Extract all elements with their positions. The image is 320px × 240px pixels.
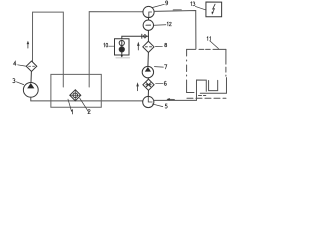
flow arrow up beside cooler 6	[136, 82, 139, 91]
label 3	[13, 79, 15, 83]
channel U segment	[209, 80, 218, 90]
label 1	[71, 110, 74, 114]
wire pump9 to gauge12	[147, 18, 149, 20]
pipe stub into tank (second riser)	[89, 12, 143, 87]
label 9	[166, 1, 168, 5]
wire pump7 to cooler6	[147, 78, 150, 79]
scan streak under valve box 10	[116, 57, 129, 59]
mold 11 right edge	[225, 49, 227, 76]
label 13	[191, 2, 195, 6]
filter 4 (diamond with dashed line)	[26, 61, 37, 71]
leader 5	[152, 104, 163, 107]
wire top run from pump9 to corner and down to mold 11	[154, 10, 196, 49]
pump 3 (circle with solid triangle)	[23, 82, 38, 97]
label 7	[164, 65, 166, 69]
heater 13 (box with lightning bolt)	[206, 2, 222, 17]
flow arrow up on left riser	[27, 41, 30, 48]
gauge 12 (circle with dash)	[143, 20, 153, 30]
wire left riser from filter 4 up	[32, 12, 63, 87]
filter 8 (diamond with dashed line)	[143, 41, 154, 52]
label 5	[165, 104, 167, 108]
leader 12	[154, 24, 166, 27]
channel long segment to right edge	[200, 78, 226, 94]
wire return pipe from mold to pump5	[154, 80, 206, 100]
valve box 10	[115, 39, 130, 58]
leader 4	[18, 65, 26, 66]
leader 1	[68, 99, 72, 111]
valve branch wire from box10 top to main line	[122, 36, 149, 39]
label 11	[207, 37, 210, 41]
wire filter4 to pump3	[30, 71, 32, 82]
mold 11 bottom edge (dashed)	[187, 97, 226, 99]
leader 6	[156, 82, 163, 84]
label 12	[167, 22, 171, 26]
pump 5 (circle with inner mark)	[143, 96, 154, 107]
label 4	[13, 61, 16, 65]
device housing 1 (tank rectangle)	[51, 74, 101, 107]
pump 9 (circle with inner mark)	[143, 6, 154, 17]
leader 11	[210, 41, 219, 49]
label 10	[104, 43, 108, 47]
wire cooler6 to pump5	[147, 90, 149, 96]
flow arrow up beside filter 8	[137, 42, 140, 50]
label 8	[165, 43, 167, 47]
cooler 6 (diamond with inner marks)	[143, 79, 154, 90]
wire gauge12 to filter8	[147, 30, 149, 41]
mold 11 phantom box top edge	[187, 48, 226, 50]
flow arrow left on return pipe	[166, 98, 174, 101]
label 2	[88, 110, 90, 114]
mold 11 left edge (dash-dot)	[186, 49, 188, 76]
channel segment left inside mold	[187, 80, 194, 93]
leader 2	[80, 98, 89, 112]
leader 7	[154, 66, 163, 69]
leader 9	[152, 4, 164, 7]
leader 3	[16, 82, 23, 85]
leader 8	[155, 45, 162, 47]
wire filter8 to pump7	[147, 52, 150, 66]
leader 10	[109, 45, 115, 47]
channel dash	[198, 94, 205, 96]
pump 7 (circle with solid triangle)	[142, 66, 153, 77]
label 6	[164, 81, 166, 85]
tick marks on wire	[174, 9, 182, 11]
small diamond on branch	[143, 34, 147, 38]
pump 2 (diamond with circle-cross) inside tank	[70, 90, 81, 101]
shutoff tick	[141, 34, 143, 38]
leader 13	[195, 6, 206, 10]
wire pump3 down and bottom run to pump5	[31, 97, 143, 101]
